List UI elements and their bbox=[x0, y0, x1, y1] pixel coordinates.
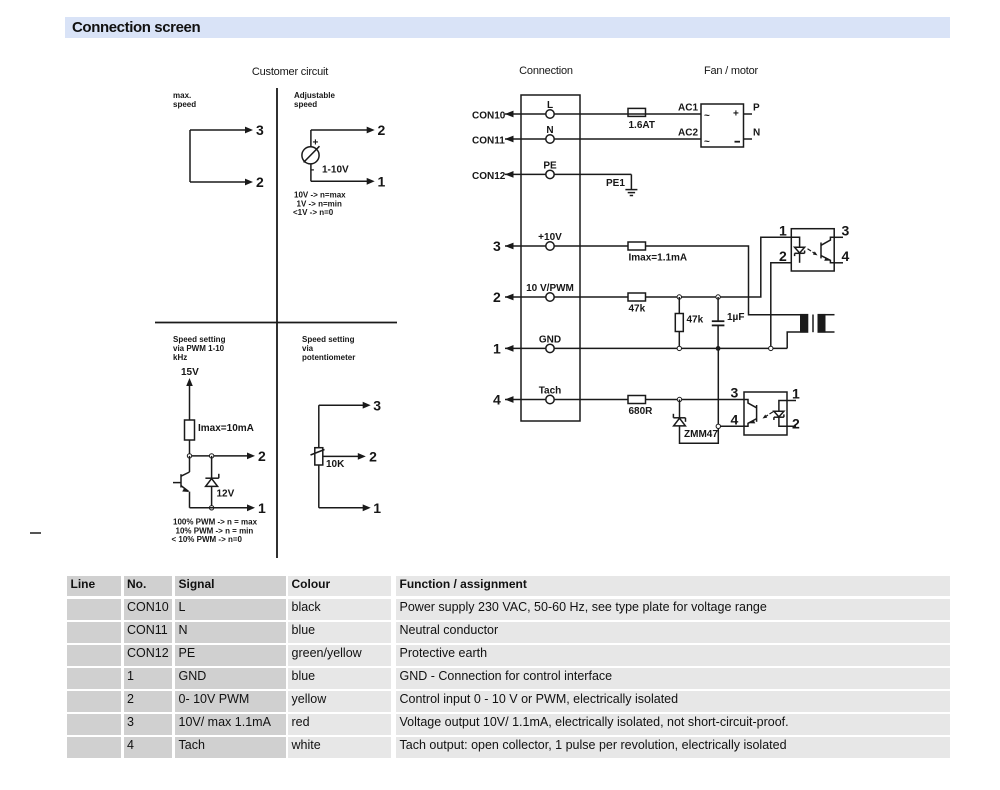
wire: resistor to node bbox=[189, 440, 191, 456]
value label Imax=1.1mA bbox=[629, 253, 688, 264]
pin label 4 (opto1) bbox=[842, 248, 850, 264]
title: Connection bbox=[519, 65, 573, 77]
pin name +10V bbox=[538, 232, 562, 243]
svg-text:PE1: PE1 bbox=[606, 178, 625, 189]
svg-text:< 10% PWM -> n=0: < 10% PWM -> n=0 bbox=[172, 535, 243, 544]
svg-text:Imax=10mA: Imax=10mA bbox=[198, 423, 254, 434]
svg-text:1µF: 1µF bbox=[727, 312, 744, 323]
pin label 1 (PWM section) bbox=[258, 500, 266, 516]
wire: L row CON10 bbox=[505, 111, 628, 118]
svg-text:10% PWM -> n = min: 10% PWM -> n = min bbox=[176, 526, 254, 535]
opto1 LED bbox=[791, 237, 804, 262]
wire: source top lead bbox=[310, 130, 312, 147]
pin label 3 (pot section) bbox=[373, 397, 381, 413]
pin label 1 (adjustable speed) bbox=[378, 173, 386, 189]
svg-text:N: N bbox=[753, 128, 760, 139]
title: Customer circuit bbox=[252, 66, 328, 78]
node: zener bottom on rail bbox=[209, 506, 213, 510]
zener diode D1 12V bbox=[205, 474, 218, 508]
pin label 2 (opto2) bbox=[792, 416, 800, 432]
optocoupler U2 bbox=[744, 392, 787, 435]
svg-text:1: 1 bbox=[792, 386, 800, 402]
svg-text:3: 3 bbox=[842, 223, 850, 239]
wire: pot bottom lead bbox=[318, 465, 320, 508]
wire: zener branch vertical bbox=[211, 456, 213, 478]
wire: +10V feed to transformer bbox=[646, 246, 801, 315]
svg-text:47k: 47k bbox=[687, 315, 704, 326]
value label 1.6AT bbox=[629, 120, 656, 131]
svg-text:speed: speed bbox=[294, 100, 317, 109]
list dash bbox=[30, 532, 41, 534]
net label PE1 bbox=[606, 178, 625, 189]
pin label 2 (opto1) bbox=[779, 248, 787, 264]
capacitor C1 1uF bbox=[712, 297, 725, 348]
svg-text:680R: 680R bbox=[629, 406, 654, 417]
divider: vertical separator of customer circuit quadrants bbox=[276, 88, 278, 558]
wire: branch to terminal 2 (PWM section) bbox=[190, 453, 256, 460]
wire: pot terminal 3 bbox=[319, 402, 371, 409]
header band: Connection screen bbox=[65, 17, 950, 38]
transformer T1 winding 1 bbox=[800, 314, 808, 333]
svg-text:2: 2 bbox=[256, 174, 264, 190]
svg-text:+: + bbox=[313, 138, 319, 149]
wire: 10V/PWM to opto1 anode bbox=[646, 237, 792, 297]
svg-text:speed: speed bbox=[173, 100, 196, 109]
wire: zener return U-loop bbox=[680, 426, 719, 443]
svg-text:3: 3 bbox=[373, 397, 381, 413]
wire: PE down lead bbox=[630, 174, 632, 189]
svg-text:max.: max. bbox=[173, 91, 191, 100]
resistor R3 (Imax=1.1mA) bbox=[628, 242, 646, 250]
motor symbol ~ top bbox=[704, 111, 710, 122]
node: collector junction bbox=[187, 454, 191, 458]
node: zener tap on Tach bbox=[677, 397, 681, 401]
svg-text:CON12: CON12 bbox=[472, 171, 506, 182]
note: voltage to speed mapping bbox=[293, 191, 346, 218]
svg-text:1: 1 bbox=[493, 340, 501, 356]
svg-text:Fan / motor: Fan / motor bbox=[704, 65, 759, 77]
wire: Tach to opto2 pin3 bbox=[646, 399, 745, 401]
label: Speed setting via PWM 1-10 kHz bbox=[173, 335, 226, 362]
resistor R (Imax=10mA) bbox=[185, 420, 195, 440]
wire: opto1 pin4 stub bbox=[834, 262, 843, 264]
ground symbol PE1 bbox=[625, 190, 637, 196]
fuse F1 bbox=[628, 108, 701, 116]
svg-text:10 V/PWM: 10 V/PWM bbox=[526, 283, 574, 294]
pin label 2 (block) bbox=[493, 289, 501, 305]
svg-text:3: 3 bbox=[493, 238, 501, 254]
note: PWM to speed mapping bbox=[172, 518, 258, 545]
value label 680R bbox=[629, 406, 654, 417]
wire: adjustable-speed terminal 2 bbox=[311, 127, 375, 134]
potentiometer R2 10K bbox=[311, 448, 325, 465]
transformer T1 core bbox=[812, 315, 814, 333]
terminal +10V bbox=[546, 242, 554, 250]
wire: N row CON11 bbox=[505, 136, 701, 143]
wire: 15V supply with up arrow bbox=[186, 378, 193, 420]
connector label CON12 bbox=[472, 171, 506, 182]
net label N (motor) bbox=[753, 128, 760, 139]
wire: pot wiper to terminal 2 bbox=[323, 453, 366, 460]
pin label 3 (max speed) bbox=[256, 122, 264, 138]
label: Speed setting via potentiometer bbox=[302, 335, 355, 362]
node: opto1 cathode return on GND bbox=[769, 346, 773, 350]
wire: opto1 cathode to GND bbox=[771, 263, 792, 346]
divider: horizontal separator of customer circuit quadrants bbox=[155, 322, 397, 324]
pin label 3 (opto1) bbox=[842, 223, 850, 239]
svg-text:L: L bbox=[547, 100, 553, 111]
terminal block (Connection) bbox=[521, 95, 580, 421]
pin label 2 (pot section) bbox=[369, 449, 377, 465]
opto2 LED bbox=[774, 401, 796, 427]
value label Imax=10mA bbox=[198, 423, 254, 434]
wire: max-speed vertical link bbox=[189, 130, 191, 182]
svg-text:via PWM 1-10: via PWM 1-10 bbox=[173, 344, 225, 353]
svg-text:AC1: AC1 bbox=[678, 103, 698, 114]
pin label 4 (block) bbox=[493, 392, 501, 408]
value label 47k bbox=[629, 304, 646, 315]
svg-text:potentiometer: potentiometer bbox=[302, 353, 355, 362]
svg-text:100% PWM -> n = max: 100% PWM -> n = max bbox=[173, 518, 258, 527]
terminal 10V/PWM bbox=[546, 293, 554, 301]
svg-text:P: P bbox=[753, 103, 760, 114]
pin name PE bbox=[543, 160, 557, 171]
terminal L bbox=[546, 110, 554, 118]
svg-text:GND: GND bbox=[539, 334, 561, 345]
motor symbol ~ bottom bbox=[704, 137, 710, 148]
svg-text:via: via bbox=[302, 344, 314, 353]
wire: opto2 pin4 lead bbox=[721, 425, 745, 427]
label: Adjustable speed bbox=[294, 91, 335, 109]
svg-text:1: 1 bbox=[779, 223, 787, 239]
svg-text:CON10: CON10 bbox=[472, 111, 506, 122]
connector label CON10 bbox=[472, 111, 506, 122]
wire: motor N lead bbox=[744, 138, 753, 140]
svg-text:~: ~ bbox=[704, 111, 710, 122]
svg-text:4: 4 bbox=[493, 392, 501, 408]
connector label CON11 bbox=[472, 136, 505, 147]
wire: pot terminal 1 bbox=[319, 504, 371, 511]
wire: Tach row terminal 4 bbox=[505, 396, 628, 403]
wire: 10V/PWM row terminal 2 bbox=[505, 294, 628, 301]
svg-text:2: 2 bbox=[779, 248, 787, 264]
wire: pot top lead bbox=[318, 405, 320, 448]
pin label 3 (opto2) bbox=[731, 385, 739, 401]
svg-text:ZMM47: ZMM47 bbox=[684, 429, 718, 440]
pin label 1 (pot section) bbox=[373, 500, 381, 516]
svg-text:47k: 47k bbox=[629, 304, 646, 315]
terminal PE bbox=[546, 170, 554, 178]
svg-text:4: 4 bbox=[842, 248, 850, 264]
svg-text:2: 2 bbox=[493, 289, 501, 305]
wire: capacitor node down to opto2 pin4 bbox=[717, 348, 719, 426]
wire: GND up to transformer bbox=[787, 332, 800, 348]
node: 47k tap bbox=[677, 295, 681, 299]
svg-text:1: 1 bbox=[258, 500, 266, 516]
svg-text:Adjustable: Adjustable bbox=[294, 91, 335, 100]
label: max. speed bbox=[173, 91, 196, 109]
svg-text:PE: PE bbox=[543, 160, 557, 171]
opto1 phototransistor bbox=[821, 237, 834, 262]
node: capacitor tap bbox=[716, 295, 720, 299]
resistor R5 47k vertical bbox=[675, 297, 683, 348]
pin name GND bbox=[539, 334, 561, 345]
net label 15V bbox=[181, 367, 199, 378]
pin name 10 V/PWM bbox=[526, 283, 574, 294]
node: zener junction top bbox=[209, 454, 213, 458]
node: opto2 pin4 junction bbox=[716, 424, 720, 428]
svg-text:4: 4 bbox=[731, 412, 739, 428]
pin label 1 (opto2) bbox=[792, 386, 800, 402]
resistor R4 47k horizontal bbox=[628, 293, 646, 301]
wire: emitter to bottom rail bbox=[189, 492, 191, 508]
svg-text:Speed setting: Speed setting bbox=[173, 335, 226, 344]
motor symbol + bbox=[733, 109, 739, 120]
value label ZMM47 bbox=[684, 429, 718, 440]
transformer T1 winding 2 bbox=[818, 314, 826, 333]
opto2 phototransistor bbox=[744, 400, 757, 427]
value label 47k (vertical) bbox=[687, 315, 704, 326]
motor symbol - bbox=[735, 141, 741, 143]
pin label 3 (block) bbox=[493, 238, 501, 254]
svg-text:1: 1 bbox=[378, 173, 386, 189]
value label 10K bbox=[326, 459, 345, 470]
svg-text:N: N bbox=[546, 125, 553, 136]
svg-text:Tach: Tach bbox=[539, 386, 562, 397]
svg-text:+10V: +10V bbox=[538, 232, 562, 243]
terminal Tach bbox=[546, 395, 554, 403]
pin label 1 (block) bbox=[493, 340, 501, 356]
wire: max-speed terminal 2 bbox=[190, 179, 253, 186]
pin label 2 (adjustable speed) bbox=[378, 122, 386, 138]
pin label 2 (max speed) bbox=[256, 174, 264, 190]
pin label 4 (opto2) bbox=[731, 412, 739, 428]
svg-text:<1V -> n=0: <1V -> n=0 bbox=[293, 208, 334, 217]
junction: capacitor bottom on GND bbox=[716, 346, 721, 351]
wire: source bottom lead bbox=[310, 164, 312, 181]
net label AC1 bbox=[678, 103, 698, 114]
wire: adjustable-speed terminal 1 bbox=[311, 178, 375, 185]
svg-text:12V: 12V bbox=[217, 489, 235, 500]
wire: +10V row terminal 3 bbox=[505, 243, 628, 250]
svg-text:CON11: CON11 bbox=[472, 136, 505, 147]
svg-text:15V: 15V bbox=[181, 367, 199, 378]
svg-text:3: 3 bbox=[256, 122, 264, 138]
node: 47k bottom on GND bbox=[677, 346, 681, 350]
svg-text:2: 2 bbox=[258, 448, 266, 464]
value label 1-10V bbox=[322, 165, 349, 176]
svg-text:1.6AT: 1.6AT bbox=[629, 120, 656, 131]
svg-text:2: 2 bbox=[378, 122, 386, 138]
wire: transformer secondary stubs bbox=[826, 315, 835, 332]
wire: GND row terminal 1 bbox=[505, 345, 787, 352]
svg-text:10V -> n=max: 10V -> n=max bbox=[294, 191, 346, 200]
wire: opto1 pin3 stub bbox=[834, 236, 843, 238]
svg-text:10K: 10K bbox=[326, 459, 345, 470]
net label AC2 bbox=[678, 128, 698, 139]
polarity label - bbox=[311, 165, 314, 176]
wire: PE row CON12 bbox=[505, 171, 631, 178]
svg-text:Imax=1.1mA: Imax=1.1mA bbox=[629, 253, 688, 264]
pin name Tach bbox=[539, 386, 562, 397]
resistor R6 680R bbox=[628, 396, 646, 404]
pin name N bbox=[546, 125, 553, 136]
value label 12V bbox=[217, 489, 235, 500]
motor module M1 (fan) bbox=[701, 104, 744, 147]
pin name L bbox=[547, 100, 553, 111]
svg-text:Speed setting: Speed setting bbox=[302, 335, 355, 344]
zener diode D2 ZMM47 bbox=[673, 400, 685, 426]
table bbox=[67, 575, 950, 577]
opto1 light arrows bbox=[808, 249, 818, 256]
svg-text:1V -> n=min: 1V -> n=min bbox=[297, 199, 342, 208]
svg-text:+: + bbox=[733, 109, 739, 120]
opto2 light arrows bbox=[763, 412, 774, 419]
svg-text:2: 2 bbox=[792, 416, 800, 432]
wire: motor P lead bbox=[744, 113, 753, 115]
pin label 1 (opto1) bbox=[779, 223, 787, 239]
svg-text:1-10V: 1-10V bbox=[322, 165, 349, 176]
svg-text:1: 1 bbox=[373, 500, 381, 516]
value label 1uF bbox=[727, 312, 744, 323]
title: Fan / motor bbox=[704, 65, 759, 77]
svg-text:~: ~ bbox=[704, 137, 710, 148]
terminal GND bbox=[546, 344, 554, 352]
svg-text:3: 3 bbox=[731, 385, 739, 401]
wire: node to collector bbox=[189, 456, 191, 472]
optocoupler U1 bbox=[791, 229, 834, 271]
transistor Q1 (NPN) bbox=[173, 472, 190, 492]
pin label 2 (PWM section) bbox=[258, 448, 266, 464]
svg-text:Connection: Connection bbox=[519, 65, 573, 77]
terminal N bbox=[546, 135, 554, 143]
voltage source V1 1-10V (adjustable) bbox=[302, 146, 320, 164]
svg-text:kHz: kHz bbox=[173, 353, 187, 362]
wire: bottom rail to terminal 1 (PWM section) bbox=[190, 504, 256, 511]
svg-text:AC2: AC2 bbox=[678, 128, 698, 139]
polarity label + bbox=[313, 138, 319, 149]
svg-text:Customer circuit: Customer circuit bbox=[252, 66, 328, 78]
wire: max-speed terminal 3 bbox=[190, 127, 253, 134]
svg-text:2: 2 bbox=[369, 449, 377, 465]
net label P bbox=[753, 103, 760, 114]
